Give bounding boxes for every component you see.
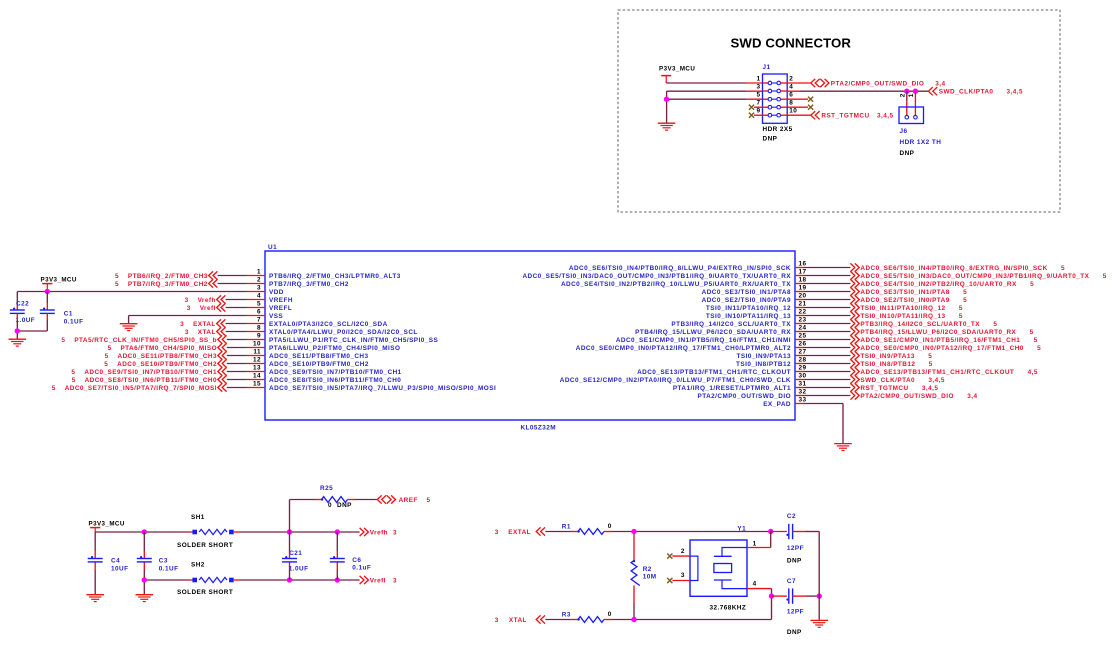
wire XTAL to R3	[545, 619, 578, 621]
pin number 9 (J1)	[756, 108, 760, 115]
solder short SH2	[192, 577, 233, 582]
svg-text:ADC0_SE7/TSI0_IN5/PTA7/IRQ_7/L: ADC0_SE7/TSI0_IN5/PTA7/IRQ_7/LLWU_P3/SPI…	[269, 385, 496, 392]
value HDR 2X5	[763, 126, 793, 133]
node junction C3 top	[142, 529, 147, 534]
pin 21 U1 (TSI0_IN11/PTA10/IRQ_12)	[706, 301, 807, 312]
wire net PTA2/CMP0_OUT/SWD_DIO	[804, 395, 851, 397]
node junction C22 gnd	[15, 328, 20, 333]
resistor R3	[577, 617, 604, 623]
pin 3 U1 (VDD)	[247, 285, 284, 296]
capacitor C4	[88, 556, 103, 562]
wire C22 top lead	[16, 292, 18, 310]
wire net PTA5/RTC_CLK_IN/FTM0_CH5/SPI0_SS_b	[227, 339, 247, 341]
pin number 3 (Y1)	[681, 572, 685, 579]
pin number 1 (J6, rotated)	[908, 93, 915, 97]
svg-text:ADC0_SE2/TSI0_IN0/PTA9 5: ADC0_SE2/TSI0_IN0/PTA9 5	[860, 297, 967, 304]
svg-text:XTAL: XTAL	[509, 617, 527, 624]
svg-text:PTA2/CMP0_OUT/SWD_DIO 3,4: PTA2/CMP0_OUT/SWD_DIO 3,4	[860, 393, 977, 400]
svg-text:11: 11	[253, 349, 261, 356]
label SOLDER SHORT (SH1)	[177, 542, 233, 549]
svg-text:3,4,5: 3,4,5	[877, 113, 893, 120]
svg-text:5 ADC0_SE11/PTB8/FTM0_CH3: 5 ADC0_SE11/PTB8/FTM0_CH3	[105, 353, 217, 360]
svg-text:10: 10	[253, 341, 261, 348]
svg-text:28: 28	[799, 357, 807, 364]
svg-text:19: 19	[799, 285, 807, 292]
svg-text:C3: C3	[159, 558, 168, 565]
svg-text:5 ADC0_SE8/TSI0_IN6/PTB11/F: 5 ADC0_SE8/TSI0_IN6/PTB11/FTM0_CH0	[72, 377, 217, 384]
pin 33 U1 (EX_PAD)	[763, 397, 806, 408]
wire net EXTAL	[226, 323, 247, 325]
pin 32 U1 (PTA2/CMP0_OUT/SWD_DIO)	[698, 389, 807, 400]
svg-text:7: 7	[257, 317, 261, 324]
wire C1 top lead	[46, 292, 48, 310]
refdes SH1	[191, 514, 205, 521]
off-page connector ADC0_SE2/TSI0_IN0/PTA9	[850, 295, 967, 303]
capacitor C7	[786, 588, 792, 603]
refdes C22	[16, 300, 29, 307]
svg-text:ADC0_SE1/CMP0_IN1/PTB5/IRQ_16/: ADC0_SE1/CMP0_IN1/PTB5/IRQ_16/FTM1_CH1/N…	[616, 337, 791, 344]
svg-text:5 PTA5/RTC_CLK_IN/FTM0_CH5/: 5 PTA5/RTC_CLK_IN/FTM0_CH5/SPI0_SS_b	[61, 337, 217, 344]
no-connect pin 9 (J1)	[749, 113, 763, 118]
wire C3 leads	[143, 532, 145, 594]
wire net TSI0_IN10/PTA11/IRQ_13	[804, 315, 851, 317]
value 0.1UF (C1)	[64, 319, 84, 326]
svg-text:5 ADC0_SE7/TSI0_IN5/PTA7/IR: 5 ADC0_SE7/TSI0_IN5/PTA7/IRQ_7/SPI0_MOSI	[52, 385, 217, 392]
node junction VDD	[45, 289, 50, 294]
off-page connector PTB6/IRQ_2/FTM0_CH3	[115, 271, 217, 279]
pin 18 U1 (ADC0_SE4/TSI0_IN2/PTB2/IRQ_10/LLWU_P5/UART0_RX/UART0_TX)	[561, 277, 807, 288]
svg-text:32: 32	[799, 389, 807, 396]
wire net TSI0_IN8/PTB12	[804, 363, 851, 365]
pin number 5 (J1)	[756, 92, 760, 99]
wire net ADC0_SE3/TSI0_IN1/PTA8	[804, 291, 851, 293]
pin 6 U1 (VSS)	[247, 309, 284, 320]
pin number 10 (J1)	[789, 108, 797, 115]
svg-text:RST_TGTMCU 3,4,5: RST_TGTMCU 3,4,5	[860, 385, 938, 392]
wire net ADC0_SE13/PTB13/FTM1_CH1/RTC_CLKOUT	[804, 371, 851, 373]
wire net ADC0_SE9/TSI0_IN7/PTB10/FTM0_CH1	[227, 371, 247, 373]
label DNP (C7)	[787, 629, 802, 636]
value 10M	[643, 573, 657, 580]
svg-text:R2: R2	[643, 566, 652, 573]
svg-text:ADC0_SE13/PTB13/FTM1_CH1/RTC_C: ADC0_SE13/PTB13/FTM1_CH1/RTC_CLKOUT 4,5	[860, 369, 1037, 376]
resistor R1	[577, 529, 604, 535]
wire net Vrefl	[226, 307, 247, 309]
node junction GND rail J1	[664, 97, 669, 102]
wire pin4 SWD_CLK net	[787, 90, 928, 92]
svg-text:2: 2	[257, 277, 261, 284]
label DNP (C2)	[787, 557, 802, 564]
svg-text:SOLDER SHORT: SOLDER SHORT	[177, 542, 233, 549]
off-page connector RST_TGTMCU (J1)	[811, 111, 894, 120]
off-page connector PTB7/IRQ_3/FTM0_CH2	[115, 279, 217, 287]
pin 10 U1 (PTA6/LLWU_P2/FTM0_CH4/SPI0_MISO)	[247, 341, 401, 352]
node junction C6 bottom	[335, 577, 340, 582]
svg-text:PTA2/CMP0_OUT/SWD_DIO: PTA2/CMP0_OUT/SWD_DIO	[831, 80, 925, 87]
off-page connector ADC0_SE11/PTB8/FTM0_CH3	[105, 351, 227, 359]
svg-text:0.1UF: 0.1UF	[64, 319, 84, 326]
svg-text:22: 22	[799, 309, 807, 316]
svg-text:C22: C22	[16, 300, 29, 307]
wire net ADC0_SE6/TSI0_IN4/PTB0/IRQ_8/EXTRG_IN/SPI0_SCK	[804, 267, 851, 269]
off-page connector TSI0_IN10/PTA11/IRQ_13	[850, 311, 962, 319]
svg-text:DNP: DNP	[787, 557, 802, 564]
svg-text:12PF: 12PF	[787, 609, 804, 616]
wire pin2 to SWD_DIO label	[787, 82, 811, 84]
capacitor C21	[282, 556, 297, 562]
label DNP (J1)	[763, 135, 778, 142]
svg-text:0.1uF: 0.1uF	[352, 565, 371, 572]
svg-text:PTA6/LLWU_P2/FTM0_CH4/SPI0_MIS: PTA6/LLWU_P2/FTM0_CH4/SPI0_MISO	[269, 345, 400, 352]
off-page connector ADC0_SE10/PTB9/FTM0_CH2	[104, 359, 226, 367]
refdes C1	[64, 310, 73, 317]
wire R1 to Y1	[604, 531, 771, 533]
value HDR 1X2 TH	[900, 139, 942, 146]
svg-text:4: 4	[789, 84, 793, 91]
wire net ADC0_SE2/TSI0_IN0/PTA9	[804, 299, 851, 301]
refdes J1	[763, 64, 771, 71]
wire R3 to Y1 pin4 net	[604, 596, 772, 619]
svg-text:5 PTB7/IRQ_3/FTM0_CH2: 5 PTB7/IRQ_3/FTM0_CH2	[115, 281, 208, 288]
node junction SH2 left	[142, 577, 147, 582]
off-page connector Vrefl	[187, 303, 226, 311]
svg-text:PTB3/IRQ_14/I2C0_SCL/UART0_TX: PTB3/IRQ_14/I2C0_SCL/UART0_TX 5	[860, 321, 997, 328]
svg-text:C4: C4	[111, 558, 120, 565]
pin 31 U1 (PTA1/IRQ_1/RESET/LPTMR0_ALT1)	[673, 381, 807, 392]
wire net PTB3/IRQ_14/I2C0_SCL/UART0_TX	[804, 323, 851, 325]
svg-text:6: 6	[257, 309, 261, 316]
value 0 (R1)	[608, 523, 612, 530]
no-connect pin 6 (J1)	[787, 97, 813, 102]
pin 4 U1 (VREFH)	[247, 293, 293, 304]
pin 14 U1 (ADC0_SE8/TSI0_IN6/PTB11/FTM0_CH0)	[247, 373, 402, 384]
solder short SH1	[192, 529, 233, 534]
svg-text:0: 0	[608, 611, 612, 618]
svg-text:TSI0_IN11/PTA10/IRQ_12: TSI0_IN11/PTA10/IRQ_12	[706, 305, 791, 312]
svg-text:TSI0_IN8/PTB12 5: TSI0_IN8/PTB12 5	[860, 361, 932, 368]
svg-text:Y1: Y1	[737, 526, 746, 533]
svg-text:TSI0_IN10/PTA11/IRQ_13 5: TSI0_IN10/PTA11/IRQ_13 5	[860, 313, 962, 320]
wire net TSI0_IN11/PTA10/IRQ_12	[804, 307, 851, 309]
svg-text:J1: J1	[763, 64, 771, 71]
off-page connector TSI0_IN8/PTB12	[850, 359, 932, 367]
svg-text:12PF: 12PF	[787, 545, 804, 552]
capacitor C2	[786, 524, 792, 539]
wire net RST_TGTMCU	[804, 387, 851, 389]
wire net ADC0_SE10/PTB9/FTM0_CH2	[227, 363, 247, 365]
svg-text:TSI0_IN10/PTA11/IRQ_13: TSI0_IN10/PTA11/IRQ_13	[706, 313, 791, 320]
svg-text:PTB7/IRQ_3/FTM0_CH2: PTB7/IRQ_3/FTM0_CH2	[269, 281, 349, 288]
svg-text:C21: C21	[289, 550, 302, 557]
svg-text:ADC0_SE3/TSI0_IN1/PTA8: ADC0_SE3/TSI0_IN1/PTA8	[702, 289, 791, 296]
pin 26 U1 (ADC0_SE0/CMP0_IN0/PTA12/IRQ_17/FTM1_CH0/LPTMR0_ALT2)	[576, 341, 807, 352]
connector J6	[899, 107, 924, 124]
svg-text:13: 13	[253, 365, 261, 372]
svg-text:PTB6/IRQ_2/FTM0_CH3/LPTMR0_ALT: PTB6/IRQ_2/FTM0_CH3/LPTMR0_ALT3	[269, 273, 401, 280]
op-amp U1 body (MCU KL05Z32M)	[265, 251, 795, 420]
svg-text:C6: C6	[352, 557, 361, 564]
svg-text:27: 27	[799, 349, 807, 356]
wire pin10 to RST label	[787, 114, 811, 116]
svg-text:0.1UF: 0.1UF	[159, 566, 179, 573]
svg-text:DNP: DNP	[787, 629, 802, 636]
svg-text:TSI0_IN11/PTA10/IRQ_12 5: TSI0_IN11/PTA10/IRQ_12 5	[860, 305, 962, 312]
svg-text:R25: R25	[320, 485, 333, 492]
node junction C6 top	[335, 529, 340, 534]
svg-text:15: 15	[253, 381, 261, 388]
svg-text:3 Vrefh: 3 Vrefh	[185, 297, 216, 304]
wire C4 leads	[94, 532, 96, 594]
pin 13 U1 (ADC0_SE9/TSI0_IN7/PTB10/FTM0_CH1)	[247, 365, 402, 376]
svg-text:ADC0_SE8/TSI0_IN6/PTB11/FTM0_C: ADC0_SE8/TSI0_IN6/PTB11/FTM0_CH0	[269, 377, 401, 384]
wire C22 bottom lead	[16, 313, 18, 331]
pin 7 U1 (EXTAL0/PTA3/I2C0_SCL/I2C0_SDA)	[247, 317, 388, 328]
node junction gnd rail (crystal)	[817, 593, 822, 598]
value 0.1uF (C6)	[352, 565, 371, 572]
off-page connector Vrefh	[360, 528, 397, 536]
svg-text:2: 2	[789, 76, 793, 83]
pin 30 U1 (ADC0_SE12/CMP0_IN2/PTA0/IRQ_0/LLWU_P7/FTM1_CH0/SWD_CLK)	[560, 373, 807, 384]
svg-text:HDR 2X5: HDR 2X5	[763, 126, 793, 133]
off-page connector PTB3/IRQ_14/I2C0_SCL/UART0_TX	[850, 319, 997, 327]
wire net PTB6/IRQ_2/FTM0_CH3	[218, 275, 247, 277]
node junction C7 left	[769, 593, 774, 598]
node junction R2 top	[631, 529, 636, 534]
pin number 7 (J1)	[756, 100, 760, 107]
svg-text:14: 14	[253, 373, 261, 380]
wire R25 to AREF	[348, 499, 378, 501]
SWD connector section border	[618, 10, 1060, 212]
label SOLDER SHORT (SH2)	[177, 589, 233, 596]
svg-text:3: 3	[495, 617, 499, 624]
svg-text:1.0UF: 1.0UF	[289, 566, 309, 573]
svg-text:3: 3	[495, 529, 499, 536]
no-connect pin 2 (Y1)	[667, 554, 690, 559]
wire pin3 row	[667, 91, 763, 122]
refdes R1	[562, 524, 571, 531]
pin number 2 (J1)	[789, 76, 793, 83]
wire net ADC0_SE7/TSI0_IN5/PTA7/IRQ_7/SPI0_MOSI	[227, 387, 247, 389]
svg-text:3: 3	[393, 577, 397, 584]
value 1.0UF (C22)	[16, 317, 36, 324]
node junction R2 bottom	[631, 617, 636, 622]
capacitor C3	[137, 556, 152, 562]
refdes C21	[289, 550, 302, 557]
pin number 8 (J1)	[789, 100, 793, 107]
svg-text:Vrefl: Vrefl	[370, 577, 386, 584]
svg-text:ADC0_SE5/TSI0_IN3/DAC0_OUT/CMP: ADC0_SE5/TSI0_IN3/DAC0_OUT/CMP0_IN3/PTB1…	[522, 273, 791, 280]
pin 22 U1 (TSI0_IN10/PTA11/IRQ_13)	[706, 309, 807, 320]
wire net SWD_CLK/PTA0	[804, 379, 851, 381]
svg-text:PTB4/IRQ_15/LLWU_P6/I2C0_SDA/U: PTB4/IRQ_15/LLWU_P6/I2C0_SDA/UART0_RX 5	[860, 329, 1033, 336]
wire pin1 row to P3V3	[666, 82, 762, 84]
label DNP (R25)	[337, 502, 352, 509]
wire C2 right lead	[793, 531, 820, 533]
node junction R25 branch	[287, 529, 292, 534]
value 0.1UF (C3)	[159, 566, 179, 573]
pin 20 U1 (ADC0_SE2/TSI0_IN0/PTA9)	[702, 293, 807, 304]
value 12PF (C7)	[787, 609, 804, 616]
svg-text:33: 33	[799, 397, 807, 404]
wire net PTB4/IRQ_15/LLWU_P6/I2C0_SDA/UART0_RX	[804, 331, 851, 333]
svg-text:5: 5	[427, 497, 431, 504]
svg-text:KL05Z32M: KL05Z32M	[521, 425, 557, 432]
node junction J6 pin2	[904, 89, 909, 94]
off-page connector XTAL (bottom)	[495, 615, 545, 623]
refdes C7	[787, 578, 796, 585]
resistor R2	[631, 560, 640, 586]
off-page connector ADC0_SE13/PTB13/FTM1_CH1/RTC_CLKOUT	[850, 367, 1037, 375]
node junction Y1 pin1	[768, 529, 773, 534]
node junction C21 bottom	[287, 577, 292, 582]
wire R2 top lead	[633, 534, 635, 561]
off-page connector ADC0_SE6/TSI0_IN4/PTB0/IRQ_8/EXTRG_IN/SPI0_SCK	[850, 263, 1065, 271]
ground (C22/C1)	[9, 339, 27, 346]
wire Vrefl rail	[144, 579, 359, 581]
wire Y1 pin4 to C7	[747, 589, 772, 597]
off-page connector ADC0_SE3/TSI0_IN1/PTA8	[850, 287, 967, 295]
svg-text:3 Vrefl: 3 Vrefl	[187, 305, 216, 312]
wire EXTAL to R1	[545, 531, 578, 533]
svg-text:1.0UF: 1.0UF	[16, 317, 36, 324]
off-page connector TSI0_IN9/PTA13	[850, 351, 932, 359]
pin number 1 (J1)	[756, 76, 760, 83]
svg-text:2: 2	[681, 548, 685, 555]
svg-text:10: 10	[789, 108, 797, 115]
svg-text:21: 21	[799, 301, 807, 308]
off-page connector PTA2/CMP0_OUT/SWD_DIO	[850, 391, 977, 399]
svg-text:ADC0_SE11/PTB8/FTM0_CH3: ADC0_SE11/PTB8/FTM0_CH3	[269, 353, 369, 360]
pin 12 U1 (ADC0_SE10/PTB9/FTM0_CH2)	[247, 357, 369, 368]
refdes R2	[643, 566, 652, 573]
wire net PTB7/IRQ_3/FTM0_CH2	[218, 283, 247, 285]
svg-text:ADC0_SE5/TSI0_IN3/DAC0_OUT/CMP: ADC0_SE5/TSI0_IN3/DAC0_OUT/CMP0_IN3/PTB1…	[860, 273, 1106, 280]
svg-text:VREFH: VREFH	[269, 297, 293, 304]
svg-text:3: 3	[756, 84, 760, 91]
wire J6 pin2 drop	[906, 91, 908, 115]
off-page connector ADC0_SE5/TSI0_IN3/DAC0_OUT/CMP0_IN3/PTB1/IRQ_9/UART0_TX	[850, 271, 1106, 279]
svg-text:32.768KHZ: 32.768KHZ	[710, 605, 747, 612]
pin number 6 (J1)	[789, 92, 793, 99]
svg-text:SOLDER SHORT: SOLDER SHORT	[177, 589, 233, 596]
svg-text:5 ADC0_SE9/TSI0_IN7/PTB10/F: 5 ADC0_SE9/TSI0_IN7/PTB10/FTM0_CH1	[71, 369, 217, 376]
svg-text:0: 0	[608, 523, 612, 530]
value KL05Z32M	[521, 425, 557, 432]
svg-text:5 PTA6/FTM0_CH4/SPI0_MISO: 5 PTA6/FTM0_CH4/SPI0_MISO	[108, 345, 217, 352]
svg-text:ADC0_SE13/PTB13/FTM1_CH1/RTC_C: ADC0_SE13/PTB13/FTM1_CH1/RTC_CLKOUT	[637, 369, 791, 376]
svg-text:C7: C7	[787, 578, 796, 585]
off-page connector SWD_CLK/PTA0	[850, 375, 944, 383]
svg-text:C2: C2	[787, 513, 796, 520]
svg-text:20: 20	[799, 293, 807, 300]
wire pin5 row	[667, 98, 763, 100]
svg-text:R3: R3	[562, 612, 571, 619]
crystal Y1	[690, 540, 747, 596]
svg-text:VREFL: VREFL	[269, 305, 292, 312]
wire net XTAL	[226, 331, 247, 333]
svg-text:17: 17	[799, 269, 807, 276]
svg-text:J6: J6	[900, 128, 908, 135]
refdes J6	[900, 128, 908, 135]
svg-text:PTB4/IRQ_15/LLWU_P6/I2C0_SDA/U: PTB4/IRQ_15/LLWU_P6/I2C0_SDA/UART0_RX	[635, 329, 791, 336]
power symbol P3V3_MCU (U1)	[41, 277, 77, 292]
svg-text:EXTAL: EXTAL	[508, 529, 531, 536]
refdes SH2	[191, 562, 205, 569]
off-page connector ADC0_SE8/TSI0_IN6/PTB11/FTM0_CH0	[72, 375, 227, 383]
refdes C2	[787, 513, 796, 520]
svg-text:8: 8	[257, 325, 261, 332]
off-page connector AREF	[377, 495, 430, 504]
value 0 (R25)	[328, 502, 332, 509]
svg-text:7: 7	[756, 100, 760, 107]
svg-text:SWD_CLK/PTA0 3,4,5: SWD_CLK/PTA0 3,4,5	[860, 377, 944, 384]
wire R25 branch	[290, 500, 322, 533]
no-connect pin 3 (Y1)	[667, 578, 690, 583]
wire R2 bottom lead	[633, 586, 635, 620]
svg-text:VSS: VSS	[269, 313, 283, 320]
svg-text:3: 3	[393, 529, 397, 536]
no-connect pin 7 (J1)	[749, 105, 763, 110]
svg-text:10M: 10M	[643, 573, 657, 580]
pin 5 U1 (VREFL)	[247, 301, 293, 312]
wire net PTA6/FTM0_CH4/SPI0_MISO	[227, 347, 247, 349]
svg-text:ADC0_SE0/CMP0_IN0/PTA12/IRQ_17: ADC0_SE0/CMP0_IN0/PTA12/IRQ_17/FTM1_CH0/…	[576, 345, 791, 352]
off-page connector PTB4/IRQ_15/LLWU_P6/I2C0_SDA/UART0_RX	[850, 327, 1033, 335]
ground (VSS)	[120, 324, 138, 331]
svg-text:PTA1/IRQ_1/RESET/LPTMR0_ALT1: PTA1/IRQ_1/RESET/LPTMR0_ALT1	[673, 385, 791, 392]
label DNP (J6)	[900, 150, 915, 157]
svg-text:29: 29	[799, 365, 807, 372]
svg-text:2: 2	[899, 93, 906, 97]
svg-text:EX_PAD: EX_PAD	[763, 401, 791, 408]
svg-text:P3V3_MCU: P3V3_MCU	[89, 520, 125, 527]
off-page connector ADC0_SE7/TSI0_IN5/PTA7/IRQ_7/SPI0_MOSI	[52, 383, 227, 391]
pin 25 U1 (ADC0_SE1/CMP0_IN1/PTB5/IRQ_16/FTM1_CH1/NMI)	[616, 333, 807, 344]
wire C7 left lead	[772, 595, 787, 597]
svg-text:6: 6	[789, 92, 793, 99]
off-page connector Vrefh	[185, 295, 226, 303]
svg-text:TSI0_IN8/PTB12: TSI0_IN8/PTB12	[736, 361, 791, 368]
svg-text:SWD CONNECTOR: SWD CONNECTOR	[731, 36, 852, 51]
svg-text:3 XTAL: 3 XTAL	[185, 329, 216, 336]
svg-text:1: 1	[756, 76, 760, 83]
power symbol P3V3_MCU (SWD)	[659, 65, 695, 83]
wire net TSI0_IN9/PTA13	[804, 355, 851, 357]
wire net ADC0_SE8/TSI0_IN6/PTB11/FTM0_CH0	[227, 379, 247, 381]
svg-text:ADC0_SE6/TSI0_IN4/PTB0/IRQ_8/E: ADC0_SE6/TSI0_IN4/PTB0/IRQ_8/EXTRG_IN/SP…	[860, 265, 1065, 272]
svg-text:1: 1	[908, 93, 915, 97]
svg-text:XTAL0/PTA4/LLWU_P0/I2C0_SDA/I2: XTAL0/PTA4/LLWU_P0/I2C0_SDA/I2C0_SCL	[269, 329, 418, 336]
pin number 2 (J6, rotated)	[899, 93, 906, 97]
svg-text:3 EXTAL: 3 EXTAL	[180, 321, 216, 328]
capacitor C1	[40, 308, 55, 314]
off-page connector EXTAL (bottom)	[495, 527, 545, 535]
wire VDD rail	[17, 291, 246, 293]
ground (C3)	[136, 595, 154, 602]
off-page connector ADC0_SE4/TSI0_IN2/PTB2/IRQ_10/UART0_RX	[850, 279, 1034, 287]
no-connect pin 8 (J1)	[787, 105, 813, 110]
ground (EX_PAD)	[834, 444, 852, 451]
off-page connector XTAL	[185, 327, 226, 335]
wire C2 left lead	[771, 531, 787, 533]
svg-text:PTB3/IRQ_14/I2C0_SCL/UART0_TX: PTB3/IRQ_14/I2C0_SCL/UART0_TX	[671, 321, 791, 328]
svg-text:24: 24	[799, 325, 807, 332]
pin 28 U1 (TSI0_IN8/PTB12)	[736, 357, 806, 368]
resistor R25	[321, 497, 348, 503]
svg-text:SH1: SH1	[191, 514, 205, 521]
svg-text:SH2: SH2	[191, 562, 205, 569]
svg-text:ADC0_SE10/PTB9/FTM0_CH2: ADC0_SE10/PTB9/FTM0_CH2	[269, 361, 369, 368]
